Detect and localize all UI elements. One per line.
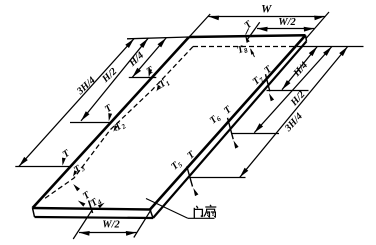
svg-text:W/2: W/2 xyxy=(102,219,120,230)
svg-text:W: W xyxy=(261,4,272,16)
svg-text:W/2: W/2 xyxy=(278,17,296,28)
